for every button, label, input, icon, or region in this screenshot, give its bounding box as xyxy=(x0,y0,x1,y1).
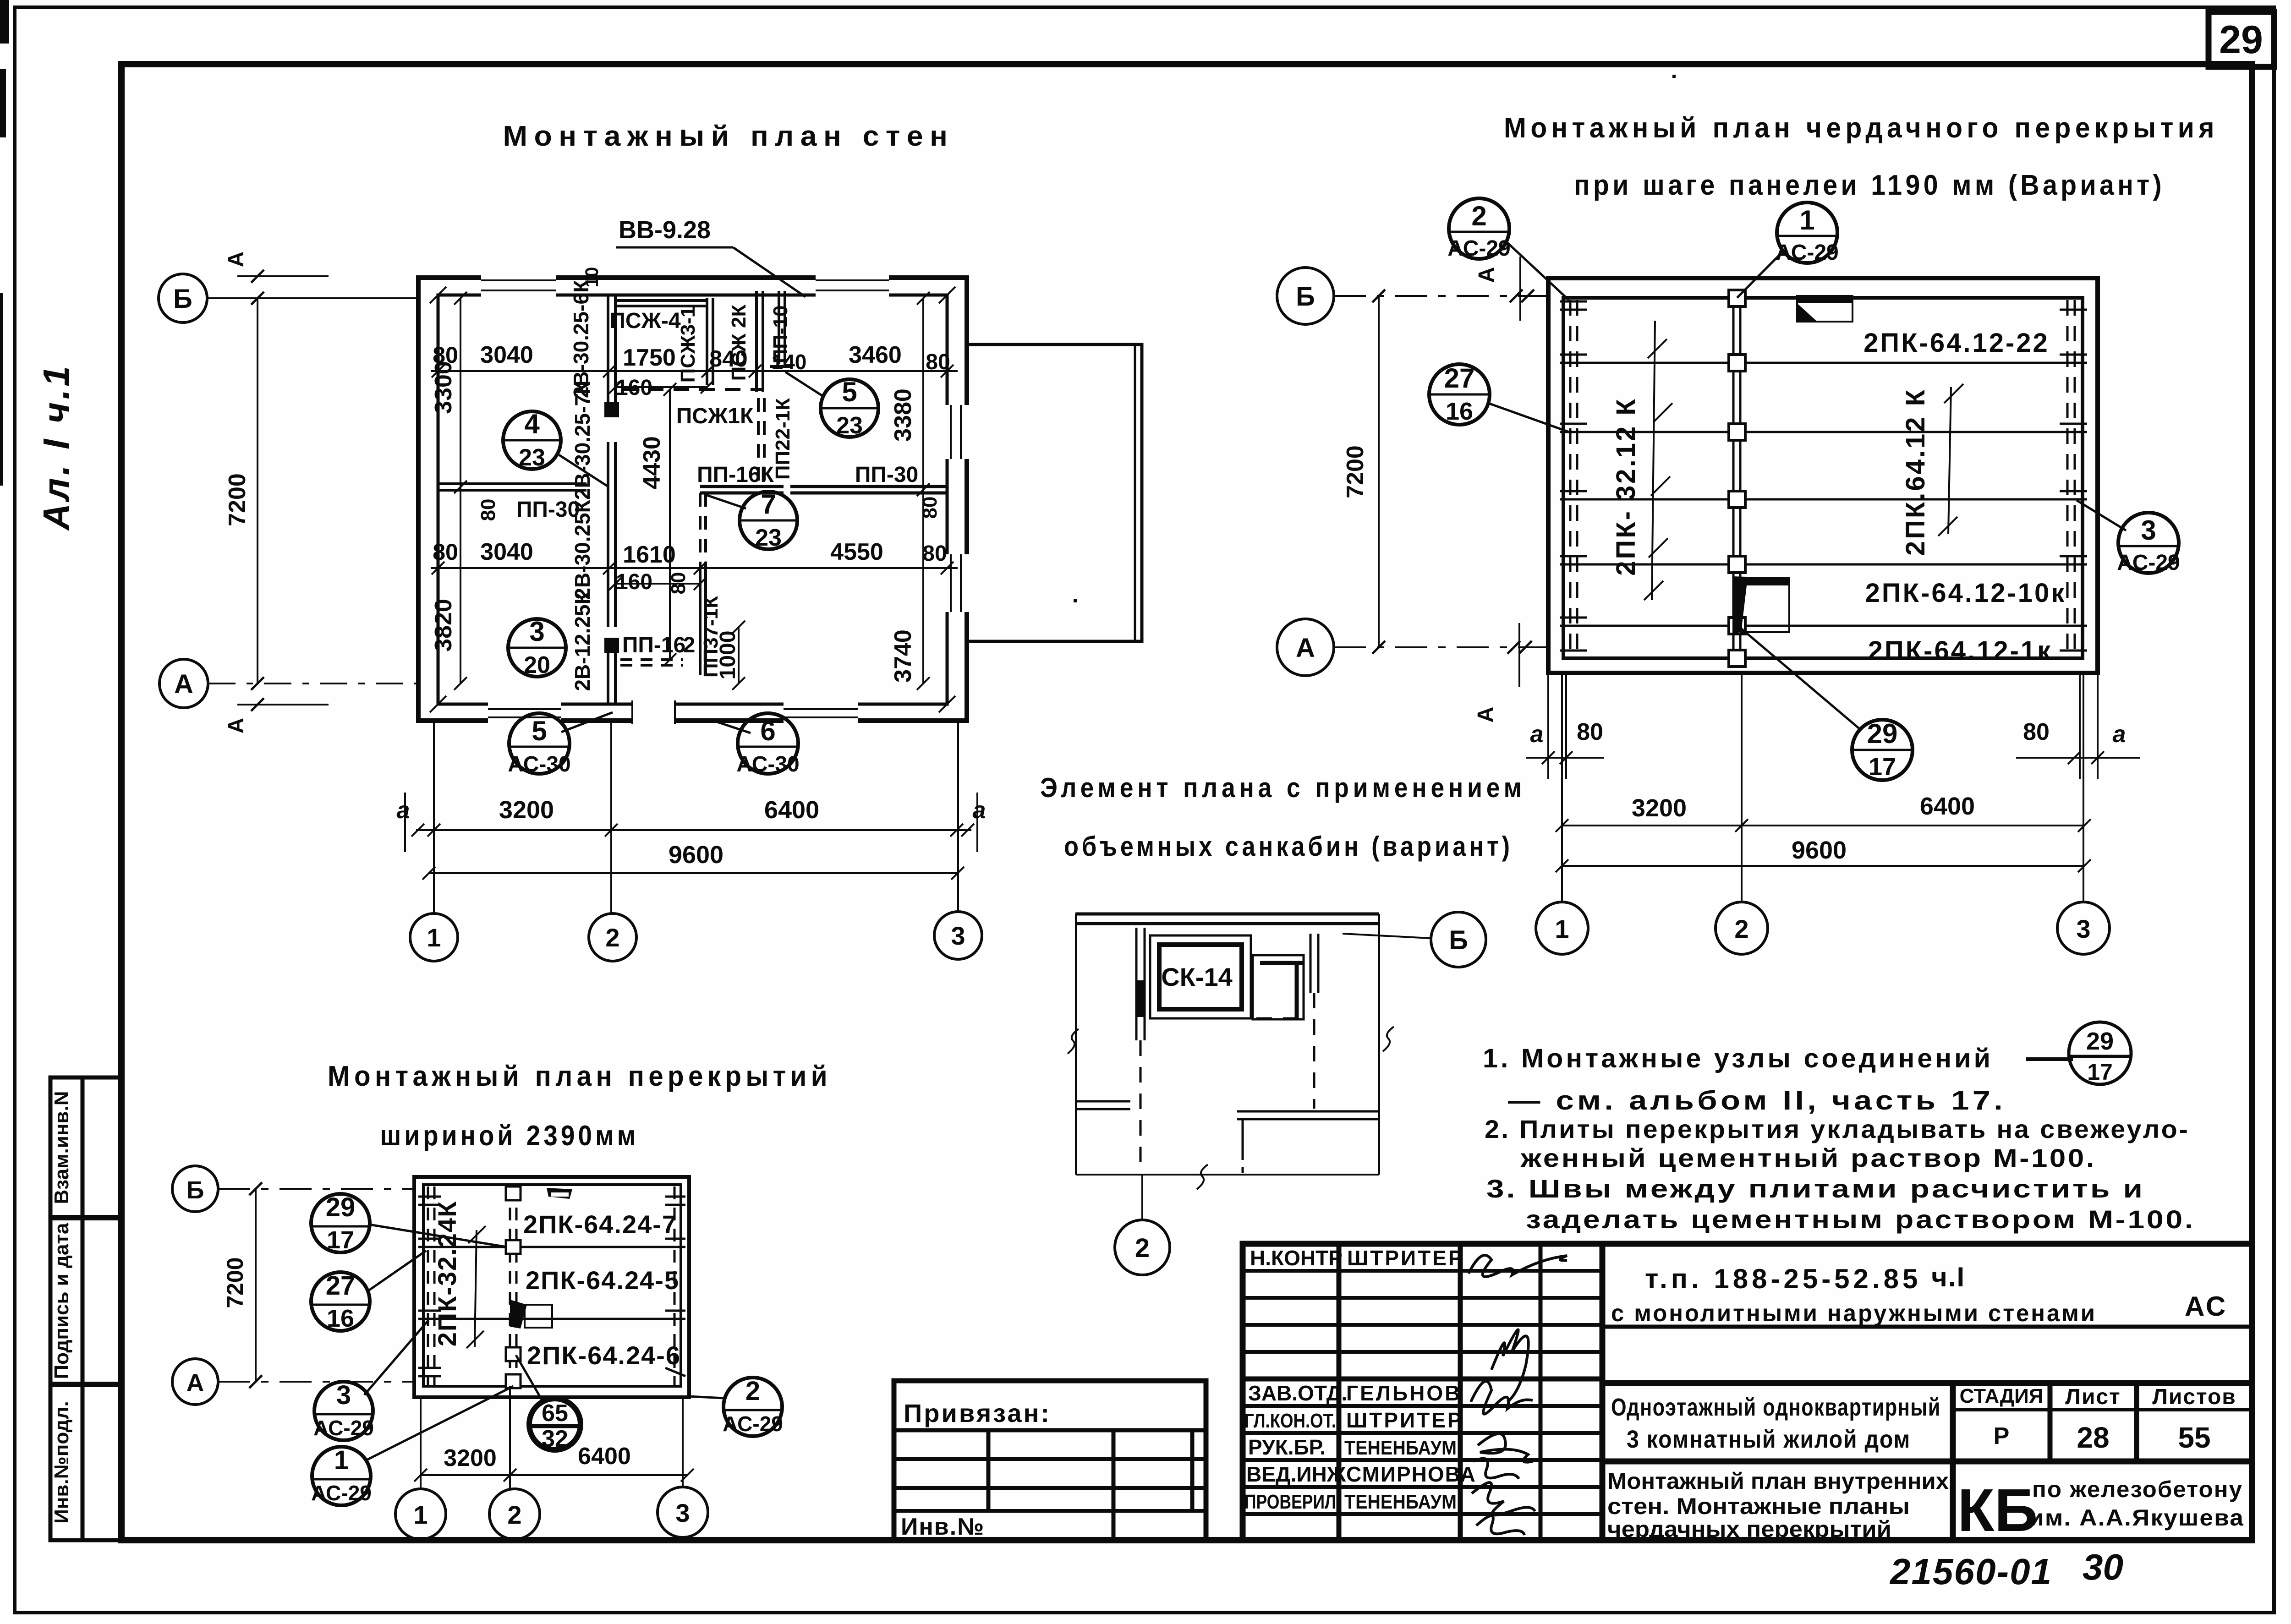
svg-text:ШТРИТЕР: ШТРИТЕР xyxy=(1347,1246,1464,1270)
svg-text:2ПК- 32.12 К: 2ПК- 32.12 К xyxy=(1611,397,1641,575)
svg-text:3820: 3820 xyxy=(430,599,457,652)
svg-text:2ПК-64.24-7: 2ПК-64.24-7 xyxy=(523,1210,677,1239)
svg-text:ШТРИТЕР: ШТРИТЕР xyxy=(1346,1408,1463,1432)
svg-text:80: 80 xyxy=(926,350,950,374)
svg-text:2: 2 xyxy=(605,923,619,952)
svg-text:ТЕНЕНБАУМ: ТЕНЕНБАУМ xyxy=(1344,1437,1457,1459)
svg-text:16: 16 xyxy=(327,1305,354,1332)
svg-text:7200: 7200 xyxy=(222,1257,248,1308)
svg-text:А: А xyxy=(1296,633,1315,663)
svg-text:Н.КОНТР: Н.КОНТР xyxy=(1250,1246,1343,1270)
svg-text:10: 10 xyxy=(582,267,602,288)
svg-text:Ал. I ч.1: Ал. I ч.1 xyxy=(36,363,77,531)
svg-text:a: a xyxy=(397,797,410,824)
svg-text:АС: АС xyxy=(2185,1291,2227,1322)
svg-text:4550: 4550 xyxy=(830,539,883,565)
svg-text:РУК.БР.: РУК.БР. xyxy=(1248,1435,1326,1459)
svg-text:Монтажный план перекрытий: Монтажный план перекрытий xyxy=(328,1061,832,1092)
svg-text:2В-12.25К: 2В-12.25К xyxy=(570,591,594,691)
svg-text:А: А xyxy=(186,1369,204,1397)
svg-text:7200: 7200 xyxy=(1342,445,1369,498)
svg-text:17: 17 xyxy=(1869,753,1896,781)
svg-text:АС-30: АС-30 xyxy=(508,752,571,776)
svg-text:28: 28 xyxy=(2077,1421,2109,1454)
svg-text:29: 29 xyxy=(1867,718,1898,749)
svg-text:ПП-16К: ПП-16К xyxy=(697,463,774,487)
svg-text:29: 29 xyxy=(326,1192,356,1222)
svg-text:КБ: КБ xyxy=(1957,1476,2038,1544)
svg-text:Лист: Лист xyxy=(2065,1385,2121,1409)
svg-text:заделать цементным растворо: заделать цементным раствором М-100. xyxy=(1526,1205,2195,1234)
svg-text:АС-29: АС-29 xyxy=(311,1481,372,1505)
svg-text:стен. Монтажные планы: стен. Монтажные планы xyxy=(1607,1493,1910,1519)
svg-text:СК-14: СК-14 xyxy=(1161,962,1233,991)
svg-text:80: 80 xyxy=(433,539,458,565)
svg-text:1: 1 xyxy=(334,1445,349,1475)
svg-text:17: 17 xyxy=(2087,1059,2113,1085)
svg-text:Привязан:: Привязан: xyxy=(904,1399,1051,1427)
svg-text:2ПК-64.24-6: 2ПК-64.24-6 xyxy=(527,1341,681,1370)
svg-text:7200: 7200 xyxy=(224,473,251,526)
svg-text:2В-30.25-6К: 2В-30.25-6К xyxy=(569,279,593,398)
svg-text:АС-29: АС-29 xyxy=(313,1416,374,1440)
svg-text:Р: Р xyxy=(1994,1423,2010,1449)
svg-text:23: 23 xyxy=(755,525,782,551)
svg-text:ПП-10: ПП-10 xyxy=(769,306,792,364)
svg-text:32: 32 xyxy=(542,1426,568,1452)
svg-text:4: 4 xyxy=(524,409,540,439)
svg-text:АС-29: АС-29 xyxy=(723,1412,783,1436)
svg-text:2: 2 xyxy=(1135,1233,1150,1263)
svg-text:Б: Б xyxy=(186,1176,204,1204)
svg-text:ГЛ.КОН.ОТ.: ГЛ.КОН.ОТ. xyxy=(1244,1410,1336,1432)
svg-text:1610: 1610 xyxy=(623,541,676,568)
svg-text:А: А xyxy=(224,252,248,268)
svg-text:3 комнатный жилой дом: 3 комнатный жилой дом xyxy=(1627,1426,1911,1453)
svg-text:9600: 9600 xyxy=(669,841,723,869)
svg-text:80: 80 xyxy=(919,497,941,519)
svg-text:А: А xyxy=(174,669,193,699)
svg-text:при шаге панелеи 1190 мм (Вари: при шаге панелеи 1190 мм (Вариант) xyxy=(1574,170,2165,201)
svg-text:ч.I: ч.I xyxy=(1931,1262,1965,1292)
svg-text:29: 29 xyxy=(2086,1028,2114,1055)
svg-text:2: 2 xyxy=(1734,914,1748,943)
svg-text:3040: 3040 xyxy=(480,342,533,368)
svg-text:2ПК.64.12 К: 2ПК.64.12 К xyxy=(1901,388,1930,556)
svg-text:16: 16 xyxy=(1446,398,1473,425)
svg-text:3: 3 xyxy=(951,921,965,950)
svg-text:А: А xyxy=(1474,267,1499,283)
svg-text:1. Монтажные узлы соединений: 1. Монтажные узлы соединений xyxy=(1483,1044,1993,1073)
svg-text:3: 3 xyxy=(529,616,544,647)
svg-text:55: 55 xyxy=(2178,1421,2210,1454)
svg-text:ПСЖ1К: ПСЖ1К xyxy=(676,404,754,428)
svg-text:ТЕНЕНБАУМ: ТЕНЕНБАУМ xyxy=(1344,1491,1457,1513)
svg-text:3: 3 xyxy=(336,1380,351,1410)
svg-text:Инв.№подл.: Инв.№подл. xyxy=(50,1401,73,1524)
svg-text:ПСЖ 2К: ПСЖ 2К xyxy=(728,304,750,381)
svg-text:3460: 3460 xyxy=(849,342,902,368)
svg-text:2ПК-64.24-5: 2ПК-64.24-5 xyxy=(526,1266,680,1295)
svg-text:21560-01: 21560-01 xyxy=(1889,1551,2052,1592)
svg-text:20: 20 xyxy=(524,652,550,678)
svg-text:2ПК-64.12-1к: 2ПК-64.12-1к xyxy=(1868,636,2052,666)
svg-text:с монолитными наружными стенам: с монолитными наружными стенами xyxy=(1611,1300,2097,1327)
svg-text:Одноэтажный одноквартирный: Одноэтажный одноквартирный xyxy=(1611,1394,1941,1421)
svg-text:Листов: Листов xyxy=(2152,1385,2236,1409)
svg-text:Б: Б xyxy=(1449,925,1468,955)
svg-text:ГЕЛЬНОВ: ГЕЛЬНОВ xyxy=(1346,1381,1462,1405)
svg-text:160: 160 xyxy=(616,376,652,400)
svg-text:2ПК-64.12-10к: 2ПК-64.12-10к xyxy=(1865,578,2066,608)
svg-text:3: 3 xyxy=(675,1498,690,1527)
svg-text:ПП-30: ПП-30 xyxy=(516,498,580,522)
svg-text:ПП-30: ПП-30 xyxy=(855,463,918,487)
svg-text:2. Плиты перекрытия укладыва: 2. Плиты перекрытия укладывать на свежеу… xyxy=(1485,1115,2190,1143)
svg-text:ПРОВЕРИЛ: ПРОВЕРИЛ xyxy=(1244,1491,1336,1513)
svg-text:ПП-16: ПП-16 xyxy=(622,633,685,657)
svg-text:3200: 3200 xyxy=(444,1445,497,1471)
svg-text:a: a xyxy=(2113,721,2126,748)
svg-text:23: 23 xyxy=(836,412,863,439)
svg-text:АС-30: АС-30 xyxy=(736,752,800,776)
svg-text:30: 30 xyxy=(2083,1547,2123,1587)
svg-text:2В-30.25-7К: 2В-30.25-7К xyxy=(570,381,594,500)
svg-text:80: 80 xyxy=(477,499,499,521)
svg-text:Монтажный план стен: Монтажный план стен xyxy=(503,120,954,152)
svg-text:ПСЖ-4: ПСЖ-4 xyxy=(609,309,681,333)
svg-text:5: 5 xyxy=(532,716,547,746)
svg-text:АС-29: АС-29 xyxy=(2117,551,2180,575)
svg-text:2: 2 xyxy=(1471,201,1486,231)
svg-text:женный цементный раствор: женный цементный раствор М-100. xyxy=(1520,1143,2096,1172)
svg-text:160: 160 xyxy=(616,570,652,594)
svg-text:СМИРНОВА: СМИРНОВА xyxy=(1346,1462,1476,1486)
svg-text:ЗАВ.ОТД.: ЗАВ.ОТД. xyxy=(1248,1381,1347,1405)
svg-text:Инв.№: Инв.№ xyxy=(901,1514,985,1540)
svg-text:1: 1 xyxy=(1555,914,1569,943)
svg-text:А: А xyxy=(224,718,248,734)
svg-text:4430: 4430 xyxy=(639,436,665,489)
svg-text:— см. альбом II, часть 17.: — см. альбом II, часть 17. xyxy=(1508,1086,2006,1115)
svg-text:6400: 6400 xyxy=(1920,793,1975,820)
svg-text:ВЕД.ИНЖ: ВЕД.ИНЖ xyxy=(1246,1462,1346,1486)
svg-text:80: 80 xyxy=(667,572,690,595)
svg-text:Подпись и дата: Подпись и дата xyxy=(50,1223,73,1379)
svg-text:3380: 3380 xyxy=(890,388,916,442)
svg-text:Монтажный план чердачного п: Монтажный план чердачного перекрытия xyxy=(1504,112,2219,144)
svg-text:А: А xyxy=(1474,707,1498,723)
svg-text:17: 17 xyxy=(327,1226,354,1254)
svg-text:2: 2 xyxy=(683,633,696,657)
svg-text:3. Швы между плитами расч: 3. Швы между плитами расчистить и xyxy=(1486,1174,2145,1203)
svg-text:7: 7 xyxy=(761,489,776,519)
svg-text:ПП22-1К: ПП22-1К xyxy=(772,398,794,480)
svg-text:по железобетону: по железобетону xyxy=(2032,1476,2243,1502)
svg-text:6400: 6400 xyxy=(764,796,819,824)
svg-text:ВВ-9.28: ВВ-9.28 xyxy=(619,216,711,244)
svg-text:объемных санкабин (вариант): объемных санкабин (вариант) xyxy=(1064,831,1513,862)
svg-text:2ПК-32.24К: 2ПК-32.24К xyxy=(433,1201,461,1347)
svg-text:Б: Б xyxy=(1296,282,1315,312)
svg-text:чердачных перекрытий: чердачных перекрытий xyxy=(1607,1516,1891,1542)
svg-text:2ПК-64.12-22: 2ПК-64.12-22 xyxy=(1863,328,2050,358)
svg-text:3: 3 xyxy=(2076,914,2090,943)
svg-text:29: 29 xyxy=(2219,18,2263,62)
svg-text:27: 27 xyxy=(1444,363,1475,394)
svg-text:80: 80 xyxy=(1577,719,1603,745)
svg-text:АС-29: АС-29 xyxy=(1776,241,1839,265)
svg-text:Элемент плана с применением: Элемент плана с применением xyxy=(1040,772,1526,803)
svg-text:65: 65 xyxy=(542,1400,568,1427)
svg-text:3200: 3200 xyxy=(499,796,554,824)
svg-text:3200: 3200 xyxy=(1632,794,1687,822)
svg-text:80: 80 xyxy=(922,541,947,566)
svg-text:им. А.А.Якушева: им. А.А.Якушева xyxy=(2029,1505,2244,1531)
svg-text:9600: 9600 xyxy=(1792,837,1847,864)
svg-text:3040: 3040 xyxy=(480,539,533,565)
svg-text:1: 1 xyxy=(1799,205,1814,235)
svg-text:27: 27 xyxy=(326,1271,356,1301)
svg-text:шириной 2390мм: шириной 2390мм xyxy=(380,1120,639,1152)
svg-text:23: 23 xyxy=(519,444,545,471)
svg-text:ПП37-1К: ПП37-1К xyxy=(700,596,722,678)
svg-text:1750: 1750 xyxy=(623,344,676,371)
svg-text:т.п. 188-25-52.85: т.п. 188-25-52.85 xyxy=(1645,1263,1921,1294)
svg-text:3740: 3740 xyxy=(890,629,916,683)
svg-text:СТАДИЯ: СТАДИЯ xyxy=(1960,1385,2044,1407)
svg-text:a: a xyxy=(973,797,986,824)
svg-text:6400: 6400 xyxy=(578,1443,631,1470)
svg-text:3300: 3300 xyxy=(430,361,457,414)
svg-text:2: 2 xyxy=(507,1500,521,1529)
svg-text:80: 80 xyxy=(2023,719,2050,745)
svg-text:a: a xyxy=(1530,721,1544,748)
svg-text:1: 1 xyxy=(427,923,441,952)
svg-text:Б: Б xyxy=(173,284,192,314)
svg-text:3: 3 xyxy=(2141,515,2156,546)
svg-text:Взам.инв.N: Взам.инв.N xyxy=(50,1091,73,1204)
svg-text:1: 1 xyxy=(413,1500,428,1529)
svg-text:АС-29: АС-29 xyxy=(1447,236,1511,261)
svg-text:5: 5 xyxy=(842,377,857,407)
svg-text:6: 6 xyxy=(760,716,775,746)
svg-text:Монтажный план внутренних: Монтажный план внутренних xyxy=(1607,1468,1949,1494)
svg-text:2: 2 xyxy=(745,1376,760,1406)
